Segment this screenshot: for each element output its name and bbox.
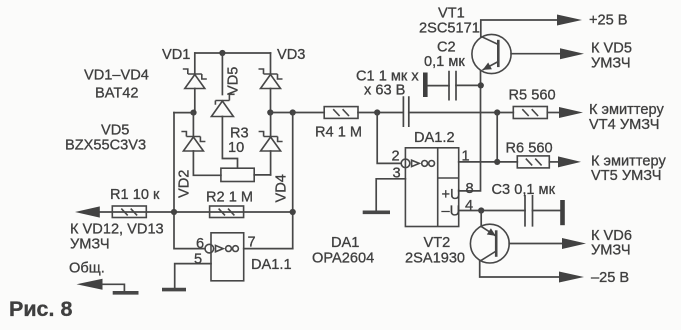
label pin8 (466, 181, 474, 197)
terminal arrow -25V (559, 272, 584, 283)
wire VD1 top lead (194, 53, 196, 74)
label VD2 rotated (177, 170, 193, 198)
transistor VT1 (472, 34, 562, 73)
label C3 (492, 182, 556, 198)
label VD5 rotated (226, 67, 242, 95)
svg-text:1: 1 (462, 149, 470, 165)
svg-text:DA1.2: DA1.2 (414, 130, 455, 146)
terminal bar C3 (560, 200, 565, 225)
svg-text:3: 3 (393, 166, 401, 182)
node bridge top junction (219, 50, 225, 56)
wire pin4 to C3 (459, 210, 525, 212)
terminal arrow K VD12 VD13 (75, 206, 100, 217)
label VD1 (162, 47, 190, 63)
svg-text:4: 4 (465, 198, 473, 214)
resistor R1 (112, 206, 146, 218)
svg-text:VT5 УМЗЧ: VT5 УМЗЧ (591, 168, 661, 184)
resistor R4 (324, 107, 358, 119)
label VD1-VD4 (84, 68, 149, 84)
svg-text:R4 1 М: R4 1 М (315, 125, 362, 141)
svg-text:2SC5171: 2SC5171 (419, 21, 480, 37)
wire pin6 from left column (174, 212, 205, 249)
wire pin3 to ground (376, 179, 405, 211)
diode VD1 (183, 69, 207, 89)
capacitor C3 (525, 196, 533, 226)
label minus25V (591, 270, 629, 286)
capacitor C2 (425, 72, 481, 100)
svg-text:–U: –U (442, 204, 461, 220)
node C2 emitter junction (478, 82, 484, 88)
wire R6 to arrow (549, 161, 559, 163)
wire VD5 top lead (221, 53, 223, 95)
terminal arrow K emitteru VT4 (559, 107, 583, 118)
label pin4 (465, 198, 473, 214)
label UMZCH VD6 (591, 243, 631, 259)
wire VD5 anode jog to R3 top (222, 117, 237, 169)
label BZX55C3V3 (65, 138, 146, 154)
terminal arrow Obshch (77, 279, 103, 290)
svg-text:VT1: VT1 (438, 6, 465, 22)
svg-text:Общ.: Общ. (69, 261, 105, 277)
resistor R2 (210, 206, 244, 218)
svg-text:–25 В: –25 В (591, 270, 629, 286)
terminal arrow K emitteru VT5 (558, 156, 581, 167)
wire left mid node to left column (174, 112, 194, 114)
svg-text:VD1–VD4: VD1–VD4 (84, 68, 149, 84)
svg-text:DA1: DA1 (331, 235, 359, 251)
svg-text:К VD5: К VD5 (591, 41, 632, 57)
wire VT2 collector to -25V rail (480, 261, 560, 277)
svg-text:R2 1 М: R2 1 М (206, 190, 253, 206)
svg-text:5: 5 (194, 252, 202, 268)
terminal arrow +25V (557, 15, 582, 26)
wire left column down to R1 rail (173, 113, 175, 212)
resistor R6 (517, 156, 549, 168)
wire VD3 top lead (270, 53, 272, 74)
terminal arrow K VD5 (560, 48, 584, 59)
label R5 (509, 88, 556, 104)
svg-text:C3 0,1 мк: C3 0,1 мк (492, 182, 556, 198)
label K emitteru VT5 (591, 154, 666, 170)
label UMZCH VD5 (591, 56, 631, 72)
svg-text:R6 560: R6 560 (506, 141, 553, 157)
label Obshch (69, 261, 105, 277)
node R2 top junction (290, 109, 296, 115)
svg-text:УМЗЧ: УМЗЧ (70, 237, 110, 253)
node R5 rail junction (494, 109, 500, 115)
label K emitteru VT4 (589, 102, 664, 118)
svg-text:VD3: VD3 (277, 47, 305, 63)
wire VD4 anode lead (270, 151, 272, 175)
resistor R3 (221, 168, 254, 181)
wire pin7 to R2 column (244, 248, 293, 250)
svg-text:2: 2 (392, 149, 400, 165)
ground Obshch (113, 291, 139, 295)
wire mid rail right segment (270, 112, 324, 114)
svg-text:VT4 УМЗЧ: VT4 УМЗЧ (589, 117, 659, 133)
label R3 (230, 126, 249, 142)
node pin4 junction (478, 207, 484, 213)
ground pin3 (363, 211, 390, 215)
label K VD5 (591, 41, 632, 57)
svg-text:х 63 В: х 63 В (364, 83, 405, 99)
label K VD12 VD13 (70, 222, 164, 238)
wire C1 to R5 rail (409, 112, 514, 114)
resistor R5 (513, 107, 547, 119)
svg-text:DA1.1: DA1.1 (251, 257, 292, 273)
wire VD4 cathode lead (270, 113, 272, 137)
svg-text:6: 6 (196, 236, 204, 252)
svg-text:+25 В: +25 В (589, 13, 628, 29)
svg-text:К эмиттеру: К эмиттеру (589, 102, 664, 118)
wire R5 rail to R6 rail (496, 113, 498, 162)
label VT4 UMZCH (589, 117, 659, 133)
label K VD6 (591, 228, 632, 244)
wire Obshch to ground (102, 284, 124, 291)
svg-text:0,1 мк: 0,1 мк (424, 54, 465, 70)
wire top bridge rail (195, 52, 271, 54)
svg-text:2SA1930: 2SA1930 (405, 251, 465, 267)
label Ris 8 (9, 297, 72, 321)
svg-text:R5 560: R5 560 (509, 88, 556, 104)
node left mid junction (190, 110, 196, 116)
svg-text:+U: +U (442, 187, 461, 203)
label C1 line2 (364, 83, 405, 99)
node R1 rail left junction (171, 209, 177, 215)
label VD3 (277, 47, 305, 63)
svg-text:8: 8 (466, 181, 474, 197)
diode VD3 (259, 69, 283, 89)
op-amp DA1.2 (401, 148, 459, 227)
svg-text:7: 7 (248, 235, 256, 251)
wire VD1 anode to left mid node (194, 89, 196, 113)
wire R3 right lead to VD4 (254, 174, 270, 176)
svg-text:BZX55C3V3: BZX55C3V3 (65, 138, 146, 154)
wire pin2 from C1 node (377, 113, 401, 164)
op-amp DA1.1 (205, 233, 244, 281)
wire VD2 cathode lead (192, 113, 194, 137)
svg-text:УМЗЧ: УМЗЧ (591, 243, 631, 259)
svg-text:BAT42: BAT42 (95, 86, 139, 102)
svg-text:УМЗЧ: УМЗЧ (591, 56, 631, 72)
diode VD2 (181, 132, 205, 152)
label VD5 type (101, 123, 129, 139)
svg-text:К VD12, VD13: К VD12, VD13 (70, 222, 164, 238)
wire R1 R2 rail (99, 211, 293, 213)
label C2 (437, 40, 456, 56)
label VT1 (438, 6, 465, 22)
wire pin1 output (459, 161, 518, 163)
node R6 rail junction (494, 159, 500, 165)
svg-text:Рис. 8: Рис. 8 (9, 297, 72, 321)
label minusU (442, 204, 461, 220)
wire VD3 anode to right mid node (270, 89, 272, 113)
label pin2 (392, 149, 400, 165)
svg-text:VD4: VD4 (274, 174, 290, 202)
label R2 (206, 190, 253, 206)
wire R4 to C1 (358, 112, 403, 114)
svg-text:VT2: VT2 (424, 235, 451, 251)
diode VD4 (259, 132, 283, 152)
label VT5 UMZCH (591, 168, 661, 184)
label BAT42 (95, 86, 139, 102)
svg-text:VD2: VD2 (177, 170, 193, 198)
label UMZCH R1 (70, 237, 110, 253)
transistor VT2 (470, 224, 564, 263)
label OPA2604 (312, 251, 374, 267)
label DA1 (331, 235, 359, 251)
label pin5 (194, 252, 202, 268)
capacitor C1 (403, 97, 408, 126)
svg-text:VD5: VD5 (226, 67, 242, 95)
svg-text:VD1: VD1 (162, 47, 190, 63)
label plus25V (589, 13, 628, 29)
node C1 left junction (374, 109, 380, 115)
wire VD2 anode to R3 left (193, 151, 221, 175)
label plusU (442, 187, 461, 203)
svg-text:R1 10 к: R1 10 к (110, 187, 160, 203)
label C2 value (424, 54, 465, 70)
node R2 rail right junction (290, 209, 296, 215)
label R1 (110, 187, 160, 203)
label 2SC5171 (419, 21, 480, 37)
wire VT1 collector to +25V rail (481, 20, 558, 36)
label R4 (315, 125, 362, 141)
terminal arrow K VD6 (562, 238, 586, 249)
wire C3 right lead (533, 210, 561, 212)
label pin6 (196, 236, 204, 252)
wire pin8 to VT1 emitter column (459, 70, 481, 190)
label 2SA1930 (405, 251, 465, 267)
label pin7 (248, 235, 256, 251)
wire VT2 emitter from pin4 node (480, 211, 482, 227)
label R6 (506, 141, 553, 157)
label DA1.2 (414, 130, 455, 146)
diode VD5 zener (211, 94, 234, 116)
wire pin5 to ground (175, 264, 211, 288)
svg-text:10: 10 (228, 140, 244, 156)
ground pin5 (162, 288, 186, 292)
node right mid junction (267, 109, 273, 115)
label R3 value (228, 140, 244, 156)
label VT2 (424, 235, 451, 251)
label pin3 (393, 166, 401, 182)
label C1 line1 (356, 69, 419, 85)
wire R5 to arrow (547, 112, 560, 114)
wire R2 right column (292, 113, 294, 249)
svg-text:VD5: VD5 (101, 123, 129, 139)
label VD4 rotated (274, 174, 290, 202)
label DA1.1 (251, 257, 292, 273)
label pin1 (462, 149, 470, 165)
svg-text:OPA2604: OPA2604 (312, 251, 374, 267)
